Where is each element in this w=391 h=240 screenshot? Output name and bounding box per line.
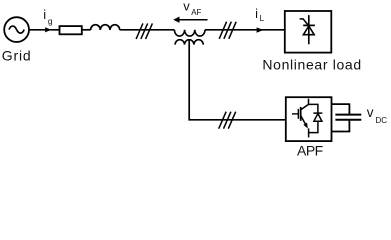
- capacitor bottom plate: [335, 119, 361, 121]
- IGBT emitter with arrow: [301, 116, 306, 124]
- APF box: [286, 97, 332, 141]
- IGBT gate bar: [297, 109, 299, 119]
- thyristor triangle: [303, 26, 314, 35]
- capacitor top plate: [335, 114, 361, 116]
- svg-text:v: v: [183, 0, 190, 14]
- svg-text:i: i: [43, 7, 46, 22]
- three-phase slashes set 2: [219, 22, 236, 39]
- svg-text:Grid: Grid: [2, 48, 32, 64]
- IGBT gate lead: [292, 113, 298, 115]
- diode cathode bar: [313, 112, 322, 114]
- capacitor top feed: [348, 104, 350, 114]
- IGBT top stub and rail to diode: [309, 99, 318, 113]
- wire: resistor to inductor: [82, 29, 91, 31]
- thyristor gate: [300, 19, 308, 25]
- capacitor bottom feed: [348, 120, 350, 132]
- current arrow i_g: [45, 27, 51, 32]
- svg-text:L: L: [260, 14, 265, 23]
- IGBT collector: [301, 104, 309, 109]
- wire: grid to resistor: [29, 29, 59, 31]
- AC source (Grid) circle: [4, 17, 29, 42]
- three-phase slashes set 3: [219, 112, 236, 129]
- DC bus bottom: [332, 131, 351, 133]
- svg-text:i: i: [255, 6, 258, 21]
- inductor L: [91, 25, 120, 30]
- v_AF arrow: [179, 19, 208, 21]
- three-phase slashes set 1: [136, 23, 152, 39]
- IGBT bottom stub: [308, 128, 310, 137]
- svg-text:AF: AF: [191, 8, 201, 17]
- wire: transformer down and right to APF: [189, 41, 286, 120]
- resistor: [60, 26, 82, 34]
- diode triangle: [314, 114, 322, 122]
- svg-text:Nonlinear load: Nonlinear load: [262, 57, 361, 73]
- DC bus top: [332, 103, 351, 105]
- svg-text:APF: APF: [297, 143, 323, 159]
- transformer primary winding (top): [174, 30, 205, 36]
- IGBT body bar: [300, 107, 302, 121]
- diode lower lead and bottom rail: [309, 121, 318, 132]
- wire: inductor to transformer: [120, 29, 175, 31]
- current arrow i_L: [257, 27, 264, 32]
- thyristor cathode bar: [303, 24, 315, 26]
- svg-text:v: v: [367, 105, 374, 120]
- nonlinear load box: [285, 11, 332, 53]
- svg-text:g: g: [48, 16, 53, 26]
- transformer secondary winding (bottom): [175, 40, 203, 45]
- wire: transformer to load: [205, 29, 285, 31]
- svg-text:DC: DC: [376, 116, 388, 125]
- thyristor vertical lead: [308, 15, 310, 44]
